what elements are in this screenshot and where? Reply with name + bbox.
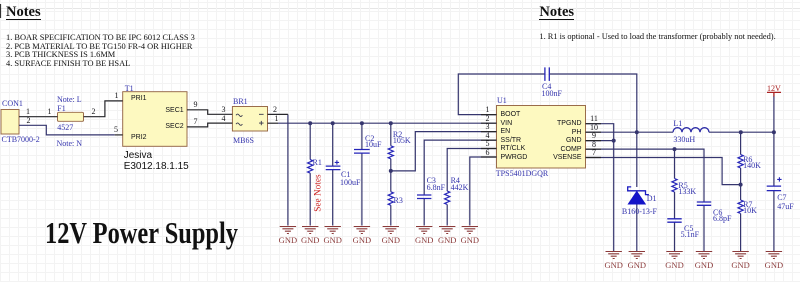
svg-text:See Notes: See Notes (313, 174, 323, 212)
